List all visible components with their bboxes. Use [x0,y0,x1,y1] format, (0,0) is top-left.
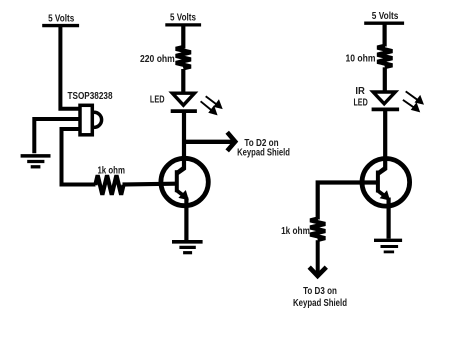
+5V rail bar (left) [42,24,79,27]
svg-text:10 ohm: 10 ohm [346,53,376,65]
resistor R1 1k ohm [95,175,123,194]
light emission arrows (D1) [201,96,222,114]
svg-text:5 Volts: 5 Volts [372,10,399,22]
wire: Q2 base to R4 [318,183,376,220]
svg-text:1k ohm: 1k ohm [281,225,310,237]
wire: R1 to Q1 base [123,182,176,187]
resistor R4 1k ohm [310,219,325,240]
svg-text:220 ohm: 220 ohm [140,53,175,65]
wire: R2 to LED D1 anode [181,69,185,92]
ground symbol (Q2 emitter) [374,240,402,252]
svg-text:LED: LED [353,96,368,108]
LED D1 [171,93,197,111]
resistor R3 10 ohm [377,46,392,67]
svg-text:TSOP38238: TSOP38238 [68,90,113,102]
wire: right rail to R3 [383,23,387,46]
svg-text:To D3 on: To D3 on [303,285,337,297]
+5V rail bar (middle) [165,23,201,26]
wire: TSOP OUT pin down to R1 [62,129,96,185]
svg-text:IR: IR [355,85,365,97]
wire: left 5V rail to TSOP Vs pin [60,26,79,109]
svg-text:Keypad Shield: Keypad Shield [293,297,347,309]
label "To D3 on Keypad Shield" [293,285,347,309]
arrow to D2 (wire and chevron head) [184,132,235,151]
wire: D2 cathode to Q2 collector [378,109,385,173]
svg-text:Keypad Shield: Keypad Shield [237,147,290,159]
wire: R3 to IR LED anode [383,67,387,90]
wire: TSOP GND pin to ground [34,119,78,153]
label "To D2 on Keypad Shield" [237,137,290,158]
resistor R2 220 ohm [176,47,191,68]
arrow to D3 (wire and chevron head) [309,240,326,276]
light emission arrows (D2) [403,91,423,111]
transistor Q2 (NPN) [362,159,410,207]
svg-text:1k ohm: 1k ohm [97,164,125,176]
svg-text:LED: LED [150,94,165,106]
label "IR LED" (D2) [353,85,368,108]
wire: Q2 emitter to ground [387,198,391,239]
svg-text:5 Volts: 5 Volts [48,13,74,25]
+5V rail bar (right) [364,22,404,25]
wire: middle rail to R2 [181,25,185,49]
svg-text:5 Volts: 5 Volts [170,11,196,23]
IR LED D2 [372,92,400,109]
wire: Q1 emitter to ground [184,198,188,241]
transistor Q1 (NPN) [161,158,208,205]
ground symbol (TSOP) [21,156,51,167]
IR receiver U1 TSOP38238 body [80,105,102,135]
wire: D1 cathode to Q1 collector [177,111,184,173]
ground symbol (Q1 emitter) [172,242,203,253]
